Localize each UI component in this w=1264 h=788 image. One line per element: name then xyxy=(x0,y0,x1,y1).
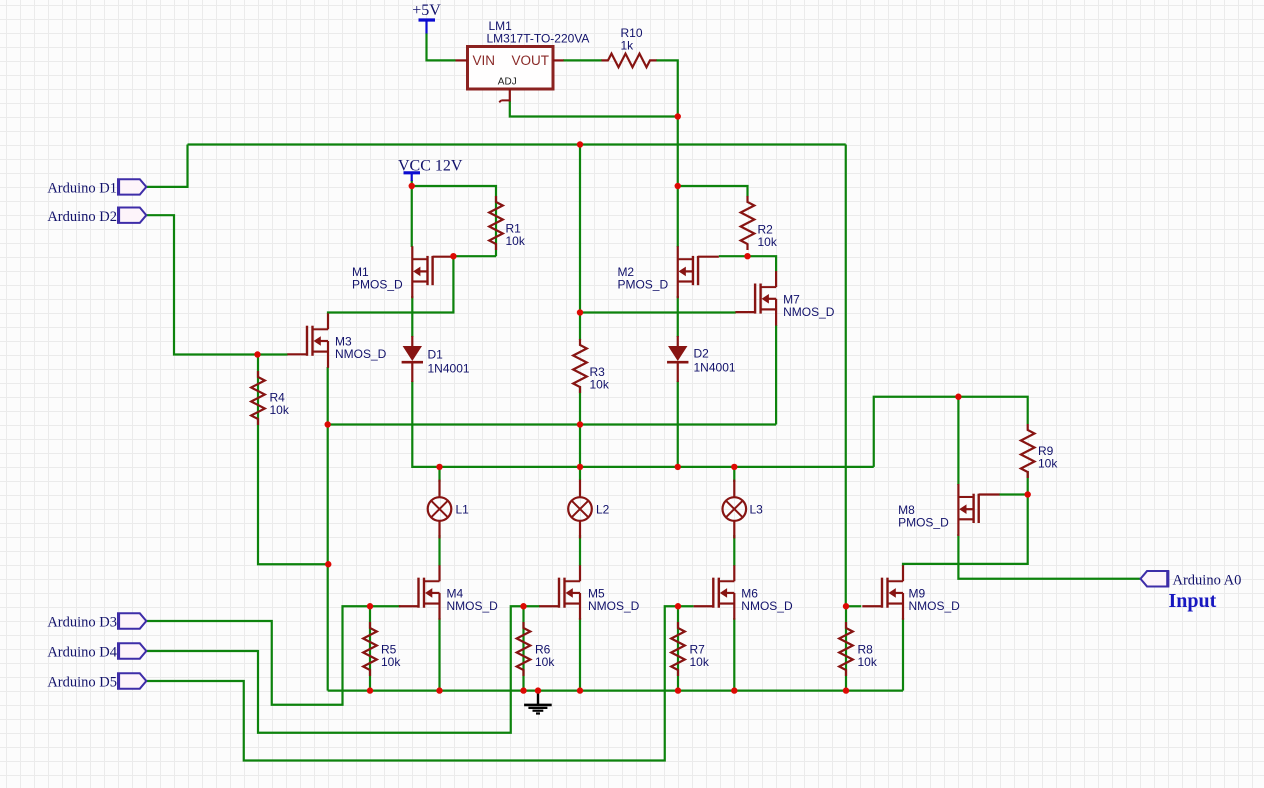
svg-text:10k: 10k xyxy=(690,655,710,669)
resistor R6 xyxy=(517,622,531,676)
wire ADJ return xyxy=(510,101,678,117)
port Arduino D1 xyxy=(118,179,146,194)
junction M3 gate / R4 xyxy=(254,351,260,357)
wire Arduino D5 riser xyxy=(146,606,693,760)
port Arduino D3 xyxy=(118,613,146,628)
wire Arduino D4 riser xyxy=(146,606,540,733)
lamp L2 xyxy=(568,480,592,539)
wire lamp rail up xyxy=(874,397,1028,467)
transistor M7 NMOS xyxy=(735,271,776,326)
wire R10 to node xyxy=(656,60,678,186)
junction M1 gate / R1 xyxy=(450,253,456,259)
wire L2 top xyxy=(579,425,581,481)
svg-text:L1: L1 xyxy=(456,503,470,517)
wire R3 bottom xyxy=(579,386,581,425)
junction lamp rail / L1 xyxy=(436,464,442,470)
svg-text:PMOS_D: PMOS_D xyxy=(352,278,403,292)
regulator U/LM1 box xyxy=(468,47,554,90)
wire L3 top stub xyxy=(733,467,735,482)
ground xyxy=(524,691,552,714)
svg-text:NMOS_D: NMOS_D xyxy=(588,599,640,613)
diode D1 xyxy=(402,336,423,382)
svg-text:NMOS_D: NMOS_D xyxy=(783,305,835,319)
transistor M2 PMOS xyxy=(678,246,719,298)
svg-text:10k: 10k xyxy=(506,234,526,248)
pin ADJ of LM1 xyxy=(509,89,511,102)
svg-text:10k: 10k xyxy=(1038,457,1058,471)
resistor R9 xyxy=(1021,424,1035,478)
wire L2 to M5 xyxy=(579,535,581,566)
transistor M3 NMOS xyxy=(287,313,328,368)
wire M8 gate node xyxy=(903,495,1028,567)
resistor R7 xyxy=(671,622,685,676)
transistor M5 NMOS xyxy=(539,565,580,620)
wire M2 drain xyxy=(677,186,679,247)
power +5V xyxy=(419,20,436,34)
wire R2 bottom to M2 gate xyxy=(719,255,748,257)
wire M3 source column xyxy=(327,367,329,691)
wire Arduino D2 to M3 gate xyxy=(146,215,287,354)
wire lamp rail xyxy=(440,466,874,468)
junction on top bus at R3 column xyxy=(577,141,583,147)
wire M5 source xyxy=(579,618,581,691)
junction lamp rail / D2 xyxy=(675,464,681,470)
svg-text:Arduino D3: Arduino D3 xyxy=(47,615,117,631)
junction R7 top / M6 gate xyxy=(675,603,681,609)
wire D1 to lamp rail xyxy=(412,381,439,467)
svg-text:Arduino A0: Arduino A0 xyxy=(1173,572,1242,588)
wire L3 to M6 xyxy=(733,535,735,566)
wire right rail xyxy=(845,145,847,607)
pin number 1 of ADJ pin xyxy=(499,100,509,102)
transistor M1 PMOS xyxy=(412,246,453,298)
junction M2 gate / R2 xyxy=(744,253,750,259)
port Arduino A0 xyxy=(1141,571,1169,586)
wire VCC to M1 drain xyxy=(411,186,413,247)
wire L1 to M4 xyxy=(438,535,440,566)
junction ground bus / R7 xyxy=(675,687,681,693)
resistor R10 body xyxy=(602,54,657,68)
svg-text:Input: Input xyxy=(1169,590,1217,612)
svg-text:D2: D2 xyxy=(694,347,710,361)
svg-text:+5V: +5V xyxy=(412,2,441,19)
wire L1 top stub xyxy=(438,467,440,482)
junction R6 top / M5 gate xyxy=(520,603,526,609)
junction ground bus / R8 xyxy=(843,687,849,693)
wire VCC to R1 xyxy=(412,180,496,256)
junction R8 top / M9 gate xyxy=(843,603,849,609)
wire M6 source xyxy=(733,618,735,691)
resistor R3 xyxy=(573,339,587,393)
transistor M4 NMOS xyxy=(399,565,440,620)
svg-text:1k: 1k xyxy=(621,39,635,53)
wire M4 source xyxy=(438,618,440,691)
svg-text:10k: 10k xyxy=(590,378,610,392)
wire M8 drain xyxy=(957,397,959,485)
power VCC 12V xyxy=(404,173,421,181)
wire mid ground bus xyxy=(328,423,776,425)
wire ground bus xyxy=(328,689,903,691)
port Arduino D2 xyxy=(118,208,146,223)
svg-text:Arduino D4: Arduino D4 xyxy=(47,645,117,661)
svg-text:NMOS_D: NMOS_D xyxy=(909,599,961,613)
junction ground bus / M5 source xyxy=(577,687,583,693)
wire M1 gate to M3 drain xyxy=(328,256,453,314)
junction at regulator output node xyxy=(675,183,681,189)
svg-text:VOUT: VOUT xyxy=(512,53,550,68)
svg-text:ADJ: ADJ xyxy=(498,76,517,87)
svg-text:VIN: VIN xyxy=(473,53,496,68)
svg-text:Arduino D1: Arduino D1 xyxy=(47,181,117,197)
wire main top bus xyxy=(188,143,846,145)
svg-text:L3: L3 xyxy=(750,503,764,517)
wire R8 column xyxy=(845,606,847,690)
junction M8 gate / R9 bottom xyxy=(1025,491,1031,497)
wire R4 column xyxy=(258,355,328,564)
wire M1 source to D1 xyxy=(411,296,413,337)
wire R7 column xyxy=(677,606,679,690)
svg-text:LM317T-TO-220VA: LM317T-TO-220VA xyxy=(487,32,590,46)
wire M9 gate xyxy=(846,605,861,607)
wire M2 gate node to M7 drain xyxy=(748,256,777,271)
lamp L3 xyxy=(723,480,747,539)
junction M7 gate / R3 column xyxy=(577,309,583,315)
wire node to R2 xyxy=(678,186,748,197)
wire R9 bottom xyxy=(1027,471,1029,495)
svg-text:NMOS_D: NMOS_D xyxy=(741,599,793,613)
resistor R5 xyxy=(363,622,377,676)
svg-text:NMOS_D: NMOS_D xyxy=(447,599,499,613)
junction lamp rail / L2 xyxy=(577,464,583,470)
junction R4 bottom / M3 source column xyxy=(325,561,331,567)
svg-text:NMOS_D: NMOS_D xyxy=(335,347,387,361)
wire M8 source to port xyxy=(958,534,1141,579)
resistor R4 xyxy=(251,371,265,425)
junction ground bus / R5 xyxy=(367,687,373,693)
wire M7 source down xyxy=(775,325,777,425)
wire M7 gate xyxy=(580,311,736,313)
junction R5 top / M4 gate xyxy=(367,603,373,609)
wire M9 source xyxy=(902,618,904,691)
pin VOUT of LM1 xyxy=(553,59,564,61)
junction VCC node xyxy=(409,183,415,189)
junction mid bus / R3 bottom xyxy=(577,421,583,427)
resistor R1 xyxy=(489,196,503,250)
svg-text:PMOS_D: PMOS_D xyxy=(898,515,949,529)
svg-text:PMOS_D: PMOS_D xyxy=(617,278,668,292)
svg-text:Arduino D2: Arduino D2 xyxy=(47,209,117,225)
transistor M9 NMOS xyxy=(862,565,903,620)
wire R5 column xyxy=(369,606,371,690)
svg-text:10k: 10k xyxy=(858,655,878,669)
svg-text:1N4001: 1N4001 xyxy=(694,361,736,375)
svg-text:10k: 10k xyxy=(381,655,401,669)
wire +5V to VIN xyxy=(427,33,456,60)
transistor M8 PMOS xyxy=(958,484,999,536)
svg-text:VCC 12V: VCC 12V xyxy=(398,158,463,175)
pin VIN of LM1 xyxy=(456,59,468,61)
port Arduino D5 xyxy=(118,673,146,688)
junction at R10/ADJ node xyxy=(675,113,681,119)
junction lamp rail / L3 xyxy=(731,464,737,470)
svg-text:10k: 10k xyxy=(758,235,778,249)
transistor M6 NMOS xyxy=(694,565,735,620)
junction M8 drain node xyxy=(955,394,961,400)
wire Arduino D3 riser xyxy=(146,606,400,705)
wire R6 column xyxy=(522,606,524,690)
svg-text:10k: 10k xyxy=(270,403,290,417)
svg-text:1N4001: 1N4001 xyxy=(428,362,470,376)
wire D2 to lamp rail xyxy=(677,381,679,467)
junction mid bus / M3 source xyxy=(325,421,331,427)
svg-text:Arduino D5: Arduino D5 xyxy=(47,675,117,691)
wire Arduino D1 to bus xyxy=(146,145,187,187)
svg-text:D1: D1 xyxy=(428,348,444,362)
resistor R2 xyxy=(741,196,755,250)
junction ground bus / R6 xyxy=(520,687,526,693)
svg-text:L2: L2 xyxy=(596,503,610,517)
junction ground bus / M4 source xyxy=(436,687,442,693)
port Arduino D4 xyxy=(118,643,146,658)
lamp L1 xyxy=(428,480,452,539)
wire R1 bottom to M1 gate xyxy=(453,255,496,257)
junction ground bus / M6 source xyxy=(731,687,737,693)
diode D2 xyxy=(667,336,688,382)
wire VOUT to R10 xyxy=(563,59,602,61)
wire M2 source to D2 xyxy=(677,296,679,337)
junction ground bus / ground symbol xyxy=(535,687,541,693)
wire R3 column xyxy=(579,145,581,341)
resistor R8 xyxy=(839,622,853,676)
svg-text:10k: 10k xyxy=(535,655,555,669)
